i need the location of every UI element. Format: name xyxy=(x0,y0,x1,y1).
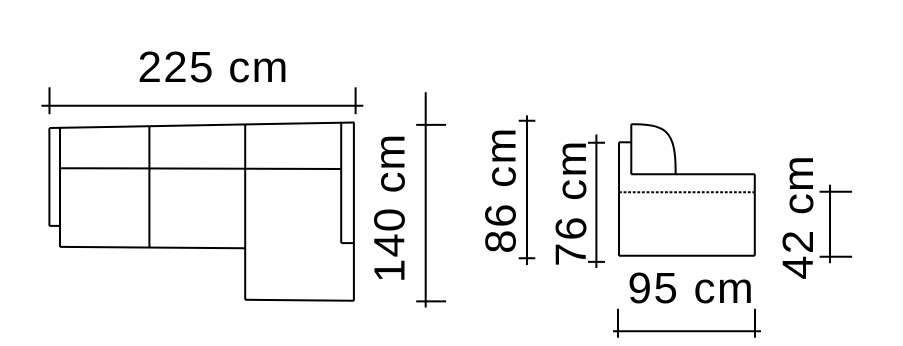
sofa top view: top edge xyxy=(49,123,354,129)
sofa top view: right armrest bottom xyxy=(341,242,354,244)
dimension line 76 cm xyxy=(588,135,605,269)
side view: body bottom edge xyxy=(619,255,755,257)
dimension line 95 cm xyxy=(613,309,761,338)
side view: backrest cushion arc xyxy=(631,124,675,174)
sofa top view: chaise bottom edge xyxy=(245,300,354,301)
sofa top view: backrest line xyxy=(60,167,341,170)
sofa top view: body bottom edge xyxy=(60,247,245,248)
sofa top view: body left edge xyxy=(59,128,61,247)
dimension line 140 cm xyxy=(416,92,446,307)
dimension line 86 cm xyxy=(519,115,536,265)
svg-text:76 cm: 76 cm xyxy=(547,139,596,267)
dimension line 225 cm xyxy=(41,87,363,114)
side view: back step top xyxy=(619,141,631,143)
svg-text:95 cm: 95 cm xyxy=(627,264,755,313)
svg-text:86 cm: 86 cm xyxy=(477,126,526,254)
dimension line 42 cm xyxy=(820,185,853,264)
side view: body right edge xyxy=(754,174,756,256)
sofa top view: seat divider 1 xyxy=(148,126,150,247)
svg-text:42 cm: 42 cm xyxy=(774,154,823,280)
sofa top view: right armrest inner edge xyxy=(340,123,342,243)
side view: seat dashed line xyxy=(619,191,755,193)
svg-text:140 cm: 140 cm xyxy=(365,133,414,283)
sofa top view: seat divider 2 / chaise left edge xyxy=(244,125,246,300)
side view: backrest cushion left edge xyxy=(630,124,632,174)
sofa top view: left armrest bottom xyxy=(49,225,60,227)
svg-text:225 cm: 225 cm xyxy=(137,43,289,92)
sofa top view: left armrest outer edge xyxy=(48,128,50,226)
side view: body top edge xyxy=(631,173,755,175)
side view: body left edge xyxy=(618,142,620,256)
sofa top view: right outer edge xyxy=(353,123,355,301)
